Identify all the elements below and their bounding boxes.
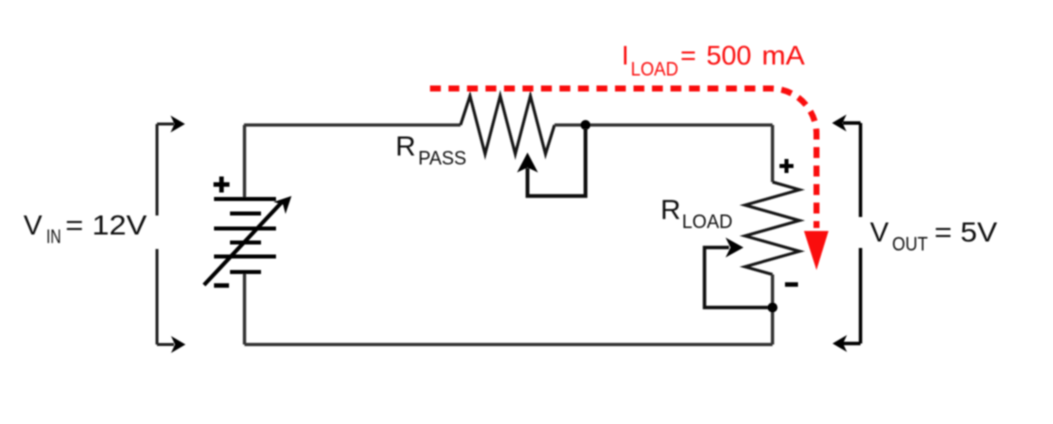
red arrowhead I_LOAD — [804, 231, 829, 270]
battery B1 plate short 3 — [230, 270, 261, 274]
svg-text:mA: mA — [762, 41, 805, 71]
bracket V_OUT top arm — [843, 121, 861, 124]
label R_PASS — [396, 131, 467, 170]
svg-text:R: R — [661, 194, 681, 225]
R_LOAD minus sign — [785, 282, 798, 287]
battery B1 plate short 1 — [230, 212, 261, 216]
bracket V_IN vertical — [156, 124, 159, 345]
node junction dot bottom of R_LOAD — [768, 303, 778, 313]
wire right (top corner down to R_LOAD) — [771, 125, 774, 182]
wire top (left segment to R_PASS) — [244, 123, 461, 126]
svg-text:V: V — [870, 216, 889, 247]
svg-text:IN: IN — [46, 227, 61, 248]
red dashed current path I_LOAD — [430, 89, 817, 229]
svg-text:= 5V: = 5V — [934, 216, 997, 247]
battery B1 plate long 2 — [214, 227, 276, 231]
svg-text:OUT: OUT — [892, 235, 928, 256]
bracket V_OUT bottom arm — [843, 342, 861, 345]
battery B1 plate long 3 — [214, 255, 276, 259]
svg-text:I: I — [622, 41, 630, 71]
svg-text:= 12V: = 12V — [65, 210, 147, 241]
battery B1 plate short 2 — [230, 241, 261, 245]
label R_LOAD — [661, 194, 733, 233]
resistor R_PASS zigzag — [461, 96, 555, 154]
wire top (R_PASS to right corner) — [555, 123, 773, 126]
wiper arrow R_LOAD — [726, 238, 744, 258]
bracket V_IN top arm — [157, 123, 174, 126]
battery minus sign — [214, 283, 229, 288]
R_LOAD plus sign — [780, 159, 794, 173]
battery B1 plate long 1 — [214, 197, 276, 201]
label I_LOAD = 500 mA — [622, 41, 805, 81]
svg-text:500: 500 — [706, 41, 751, 71]
label V_IN = 12V — [24, 210, 148, 248]
resistor R_LOAD zigzag — [745, 182, 800, 275]
bracket V_OUT vertical — [859, 123, 862, 344]
svg-text:LOAD: LOAD — [682, 212, 733, 233]
svg-text:PASS: PASS — [418, 149, 466, 170]
wire wiper loop R_LOAD — [705, 248, 769, 308]
svg-text:LOAD: LOAD — [631, 60, 679, 81]
wire left (bottom corner up to battery minus) — [243, 272, 246, 345]
svg-text:=: = — [680, 41, 696, 71]
battery plus sign — [214, 177, 230, 193]
wire wiper loop R_PASS — [528, 128, 586, 196]
node junction dot on top wire — [581, 120, 591, 130]
battery variable arrow — [204, 202, 282, 285]
wire left (battery plus up to top corner) — [243, 125, 246, 199]
wiper arrow R_PASS — [517, 153, 538, 173]
svg-text:R: R — [396, 131, 416, 162]
label V_OUT = 5V — [870, 216, 998, 255]
wire right (R_LOAD to bottom junction) — [771, 275, 774, 345]
wire bottom — [245, 343, 773, 346]
svg-text:V: V — [24, 210, 43, 241]
bracket V_IN bottom arm — [157, 343, 174, 346]
